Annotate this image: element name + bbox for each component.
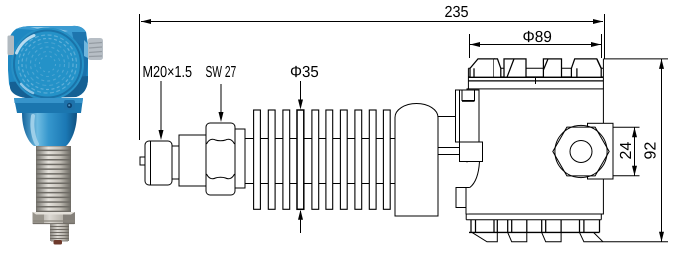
extension line bottom for 92 bbox=[603, 241, 668, 243]
mounting bracket column bbox=[456, 90, 480, 142]
photo cap highlight arc bbox=[17, 36, 35, 54]
bottom cap foot 2 bbox=[508, 232, 527, 241]
dimension 24 text bbox=[620, 142, 631, 159]
connector hex bbox=[553, 127, 609, 176]
top cap rib C bbox=[543, 59, 561, 77]
photo cable gland bbox=[88, 38, 103, 60]
sensor dome bbox=[395, 104, 438, 216]
photo threaded stem bbox=[50, 224, 69, 241]
top cap center tick bbox=[535, 77, 537, 84]
photo collar bbox=[14, 98, 83, 113]
M20 thread nub bbox=[140, 157, 146, 165]
photo cap text band inner bbox=[22, 39, 73, 90]
fillet arc below block bbox=[470, 162, 480, 188]
connector inner circle bbox=[570, 141, 592, 163]
connector plate bbox=[588, 123, 614, 179]
leader arrow Phi35 bottom bbox=[298, 210, 303, 233]
photo cap face bbox=[12, 28, 84, 100]
extension line right of 235 bbox=[604, 14, 606, 59]
M20 fitting body bbox=[145, 141, 172, 185]
bottom cap foot 1 bbox=[472, 232, 497, 241]
dimension 92 line bbox=[659, 59, 664, 242]
leader arrow SW27 bbox=[219, 84, 224, 122]
vent stub lines bbox=[438, 148, 461, 155]
radiator fins bbox=[254, 110, 391, 209]
bottom cap foot 4 bbox=[580, 232, 604, 241]
connector outer circle bbox=[555, 125, 607, 177]
extension lines for 24 bbox=[613, 127, 640, 176]
hex nut SW27 bbox=[206, 123, 235, 195]
photo sensor tip bbox=[54, 240, 63, 245]
photo cap outer edge bbox=[12, 28, 84, 100]
top cap rib D bbox=[571, 59, 601, 77]
bottom cap tab 4 bbox=[580, 220, 600, 233]
leader arrow M20x1.5 bbox=[159, 81, 164, 140]
top cap band lines bbox=[468, 59, 603, 89]
spacer ring bbox=[172, 146, 179, 179]
label M20x1.5 bbox=[144, 66, 192, 77]
cylinder section bbox=[179, 135, 206, 186]
top cap rib B bbox=[504, 59, 526, 77]
core rod of radiator bbox=[245, 139, 407, 184]
photo head top glint bbox=[30, 27, 68, 34]
photo head top facet bbox=[16, 26, 87, 46]
photo head right facet bbox=[72, 32, 88, 88]
bottom cap foot 3 bbox=[542, 232, 561, 241]
photo fins stack bbox=[36, 146, 71, 212]
extension line top for 92 bbox=[603, 58, 668, 60]
extension line left of Phi89 bbox=[469, 34, 471, 58]
photo head right glint bbox=[84, 40, 88, 58]
body edge eraser below block bbox=[459, 162, 469, 213]
photo hex nut bbox=[33, 212, 76, 224]
collar ring bbox=[235, 129, 245, 188]
dimension Phi89 line bbox=[470, 42, 601, 47]
photo dome highlight bbox=[32, 116, 37, 144]
dimension 235 line bbox=[141, 19, 603, 24]
dimension Phi89 text bbox=[523, 31, 551, 42]
extension line right of Phi89 bbox=[601, 34, 603, 58]
dimension 24 line bbox=[632, 127, 637, 176]
photo head housing bbox=[8, 26, 88, 98]
housing body bbox=[467, 89, 603, 214]
bottom flange lines bbox=[466, 214, 601, 232]
photo head lower shade bbox=[10, 76, 88, 98]
photo cap rim ring bbox=[14, 31, 81, 98]
top cap rib A bbox=[470, 59, 501, 77]
neck bottom edge bbox=[456, 187, 470, 189]
bottom cap tab 1 bbox=[471, 220, 497, 233]
photo cap lower highlight bbox=[21, 84, 33, 93]
leader arrow Phi35 top bbox=[298, 81, 303, 110]
photo cap text band outer bbox=[19, 35, 77, 93]
photo dome bbox=[22, 113, 77, 146]
dimension 235 text bbox=[445, 6, 468, 17]
neck top edge bbox=[438, 116, 456, 118]
lower tab bbox=[456, 188, 466, 215]
photo left tab bbox=[8, 36, 15, 56]
label Phi35 bbox=[291, 66, 318, 77]
label SW 27 bbox=[206, 66, 236, 77]
dimension 92 text bbox=[644, 143, 655, 159]
bottom cap tab 2 bbox=[508, 220, 527, 233]
bottom cap tab 3 bbox=[542, 220, 561, 233]
extension line left of 235 bbox=[139, 14, 141, 140]
vent valve block bbox=[460, 142, 483, 162]
photo cap inner rings bbox=[26, 43, 69, 86]
